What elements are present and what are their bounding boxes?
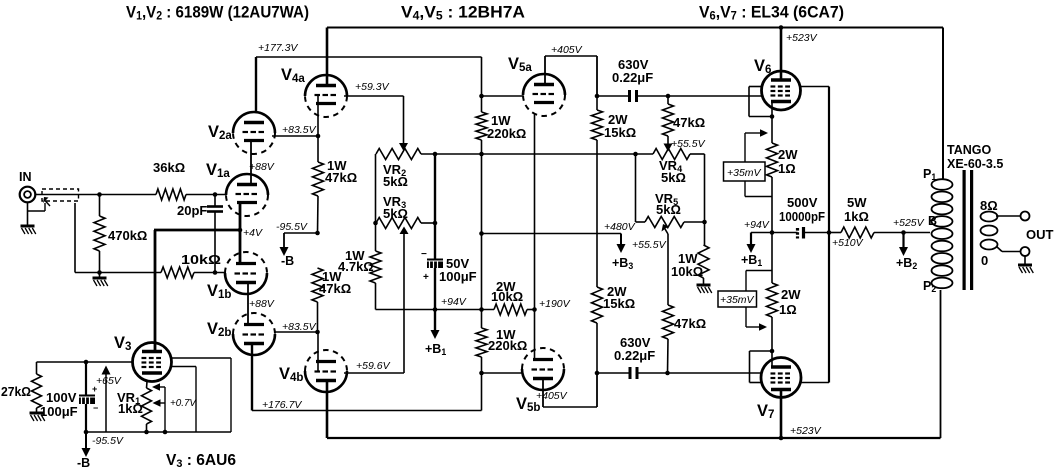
wire V3 grid rail [37, 361, 134, 363]
wire V4b cathode +59.6V to VR3 wiper [344, 360, 404, 373]
wire VR3 right to cap line [421, 222, 435, 224]
node 220k lower / +94V rail [479, 307, 484, 312]
wire V3 g3 to bottom rail right [170, 358, 231, 432]
V7 g3 bracket [750, 351, 773, 383]
meter box +35mV (upper) [724, 129, 773, 196]
svg-text:10kΩ: 10kΩ [491, 289, 523, 304]
capacitor 500V 10000pF [779, 195, 825, 239]
svg-text:47kΩ: 47kΩ [673, 115, 705, 130]
power +B2 arrow [896, 233, 917, 271]
node VR3 left [373, 221, 378, 226]
svg-text:5kΩ: 5kΩ [661, 170, 686, 185]
svg-text:+59.6V: +59.6V [356, 360, 391, 372]
pentode V6 [754, 57, 801, 110]
svg-text:+94V: +94V [441, 296, 467, 308]
node midline/+480V drop [633, 152, 638, 157]
label V3 : 6AU6 [166, 452, 236, 470]
wire +177.3V corner down to V5a grid [481, 57, 483, 96]
svg-text:36kΩ: 36kΩ [153, 160, 185, 175]
triode V1a [206, 161, 268, 216]
wire top rail down to P1 [942, 28, 944, 181]
triode V2b [207, 313, 275, 355]
svg-text:470kΩ: 470kΩ [108, 228, 147, 243]
svg-text:+88V: +88V [249, 298, 275, 310]
svg-text:-95.5V: -95.5V [92, 435, 124, 447]
shielded cable (dashed) [28, 189, 79, 211]
wire V4b plate to bottom rail [326, 381, 329, 438]
resistor 27kΩ [1, 362, 42, 412]
svg-text:+177.3V: +177.3V [258, 42, 298, 54]
svg-text:47kΩ: 47kΩ [319, 281, 351, 296]
VR1 wiper arrows [152, 383, 197, 434]
node V7 grid / 47k [665, 371, 670, 376]
wire VR2 left to VR3 left [375, 154, 377, 223]
wire V5a cathode down to V5b [534, 115, 536, 362]
wire V1a cathode tail (+4V node) [154, 203, 263, 263]
power +B1 arrow (left) [425, 310, 446, 357]
VR5 wiper arrow and 47k lower [632, 224, 669, 305]
svg-text:+35mV: +35mV [727, 167, 762, 179]
node midline/cap [433, 152, 438, 157]
svg-text:20pF: 20pF [177, 203, 207, 218]
wire V2b grid to node [275, 331, 318, 333]
node B +525V [893, 214, 937, 235]
triode V4a [281, 66, 347, 117]
wire V4a grid down to +83.5V node [317, 96, 319, 136]
wire V5b grid [482, 372, 523, 374]
wire V5a grid [482, 95, 524, 97]
secondary 0 lead [981, 246, 1030, 268]
triode V5b [516, 348, 564, 414]
node -95.5V [276, 221, 320, 235]
node +83.5V upper [316, 134, 321, 139]
svg-text:0: 0 [981, 253, 988, 268]
resistor 47kΩ (lower) [663, 305, 707, 373]
svg-text:+405V: +405V [551, 44, 583, 56]
power -B arrow (lower) [77, 432, 91, 470]
svg-text:IN: IN [19, 170, 32, 184]
ground (output) [1018, 256, 1033, 273]
capacitor 20pF [177, 195, 223, 273]
wire V3 plate to tail [154, 230, 157, 351]
wire to -B (upper) [284, 232, 318, 234]
wire lower grid return [75, 203, 161, 273]
pentode V3 [114, 334, 172, 382]
svg-text:100μF: 100μF [439, 269, 477, 284]
svg-text:OUT: OUT [1026, 227, 1054, 242]
svg-text:+190V: +190V [539, 298, 571, 310]
ground (27k) [30, 413, 45, 421]
node V7 anode on rail [779, 436, 784, 441]
svg-text:8Ω: 8Ω [980, 198, 998, 213]
wire V2b plate down to +176.7V line [251, 345, 253, 411]
svg-text:+94V: +94V [744, 219, 770, 231]
resistor 5W 1kΩ [832, 195, 874, 249]
svg-text:1kΩ: 1kΩ [118, 401, 143, 416]
potentiometer VR2 5kΩ [376, 149, 421, 190]
wire 220k chain vertical [481, 154, 483, 328]
svg-text:100μF: 100μF [40, 404, 78, 419]
resistor 1W 47kΩ (upper) [313, 136, 358, 233]
triode V1b [207, 252, 267, 301]
wire +B3 rail [482, 233, 622, 235]
resistor 10kΩ [161, 252, 225, 278]
wire V5b plate +405V [536, 373, 597, 407]
svg-text:+65V: +65V [96, 375, 122, 387]
svg-text:10kΩ: 10kΩ [671, 264, 703, 279]
svg-text:5kΩ: 5kΩ [656, 202, 681, 217]
wire V6 anode [780, 28, 783, 81]
wire V7 screen to right [800, 382, 829, 384]
svg-text:-B: -B [77, 456, 90, 470]
svg-text:47kΩ: 47kΩ [325, 170, 357, 185]
resistor 1W 47kΩ (lower) [312, 268, 351, 332]
svg-text:V6,V7 : EL34 (6CA7): V6,V7 : EL34 (6CA7) [699, 3, 844, 23]
svg-text:220kΩ: 220kΩ [487, 126, 526, 141]
wire V7 grid [668, 372, 762, 374]
svg-text:XE-60-3.5: XE-60-3.5 [947, 157, 1003, 171]
resistor 470kΩ [94, 195, 147, 273]
svg-text:+55.5V: +55.5V [632, 239, 667, 251]
svg-text:-95.5V: -95.5V [276, 221, 308, 233]
svg-text:+510V: +510V [832, 237, 864, 249]
svg-text:47kΩ: 47kΩ [674, 316, 706, 331]
node VR1 bottom [144, 430, 149, 435]
resistor 1W 220kΩ (lower) [476, 327, 527, 373]
wire V4a anode to top rail [326, 28, 329, 86]
wire P2 to bottom rail [940, 290, 942, 438]
transformer T1 TANGO XE-60-3.5 [923, 143, 1003, 294]
resistor 2W 10kΩ [491, 279, 535, 315]
svg-text:2W: 2W [778, 147, 798, 162]
wire V1b plate to V2b cathode [248, 283, 275, 325]
node V6 cathode resistor bottom rail [770, 230, 775, 235]
svg-text:10000pF: 10000pF [779, 209, 825, 224]
secondary 8 ohm lead [980, 198, 1030, 221]
power +B1 arrow (right) [741, 233, 762, 268]
wire screen bus vertical [828, 87, 830, 383]
svg-text:1Ω: 1Ω [779, 302, 797, 317]
V6 g3 bracket [749, 87, 772, 117]
wire V4b grid up to +83.5V node [317, 332, 319, 371]
svg-text:+35mV: +35mV [720, 294, 755, 306]
svg-text:+0.7V: +0.7V [170, 397, 197, 409]
power -B arrow (upper) [280, 233, 295, 268]
svg-text:+4V: +4V [243, 227, 263, 239]
wire V5a anode +405V [545, 44, 597, 96]
node V7 cathode [770, 349, 775, 354]
capacitor 100V 100uF electrolytic [40, 362, 98, 432]
capacitor 630V 0.22uF (upper) [597, 57, 668, 102]
potentiometer VR1 1kΩ [117, 382, 152, 433]
wire +176.7V corner up [481, 373, 483, 411]
resistor 2W 1Ω (lower) [767, 233, 802, 352]
svg-text:+88V: +88V [249, 161, 275, 173]
capacitor 630V 0.22uF (lower) [597, 335, 668, 379]
svg-text:2W: 2W [781, 287, 801, 302]
svg-text:1kΩ: 1kΩ [844, 209, 869, 224]
label OUT [1026, 227, 1054, 242]
node VR4/VR5 right [702, 220, 707, 225]
node V6 grid / 47k [666, 94, 671, 99]
arrow +65V [96, 366, 122, 433]
resistor 2W 15kΩ (upper) [592, 96, 637, 287]
wire V3 screen to bottom rail [171, 367, 196, 433]
svg-text:+55.5V: +55.5V [671, 138, 706, 150]
svg-text:−: − [421, 249, 427, 260]
ground (470k) [93, 273, 108, 287]
ground (input jack) [21, 203, 36, 235]
svg-text:+405V: +405V [536, 390, 568, 402]
svg-text:+523V: +523V [790, 425, 822, 437]
node upper coupling input [595, 94, 600, 99]
svg-text:27kΩ: 27kΩ [1, 384, 31, 399]
svg-text:5kΩ: 5kΩ [383, 174, 408, 189]
svg-text:1Ω: 1Ω [778, 161, 796, 176]
node screen bus / cap [827, 230, 832, 235]
svg-text:100V: 100V [46, 390, 77, 405]
node V6 anode on rail [779, 25, 818, 44]
potentiometer VR4 5kΩ [653, 149, 705, 186]
title V4,V5 tube type [401, 3, 525, 23]
capacitor 50V 100uF electrolytic [421, 154, 477, 310]
triode V4b [279, 350, 347, 392]
node V6 cathode [770, 114, 775, 119]
node cap bottom +94V rail [433, 307, 438, 312]
resistor 47kΩ (upper) [663, 96, 706, 152]
wire +94V screen rail [744, 219, 930, 233]
wire VR2 right / feedback midline [421, 153, 653, 155]
svg-text:+83.5V: +83.5V [282, 124, 317, 136]
svg-text:0.22μF: 0.22μF [614, 348, 655, 363]
svg-text:+176.7V: +176.7V [262, 399, 302, 411]
node V5b grid [479, 371, 484, 376]
svg-text:V1,V2 : 6189W (12AU7WA): V1,V2 : 6189W (12AU7WA) [126, 3, 309, 23]
resistor 2W 15kΩ (lower) [592, 284, 636, 373]
svg-text:+480V: +480V [604, 221, 636, 233]
svg-text:5W: 5W [847, 195, 867, 210]
resistor 1W 4.7kΩ [338, 223, 381, 310]
wire V7 anode [780, 390, 783, 438]
svg-text:+: + [423, 272, 429, 283]
title V1,V2 tube type [126, 3, 309, 23]
wire +177.3V rail [256, 42, 482, 113]
svg-text:220kΩ: 220kΩ [488, 338, 527, 353]
svg-text:V4,V5 : 12BH7A: V4,V5 : 12BH7A [401, 3, 525, 23]
svg-text:+525V: +525V [893, 217, 925, 229]
resistor 36kΩ [153, 160, 226, 200]
node +190V [532, 298, 570, 312]
VR2 wiper arrow [399, 96, 408, 151]
wire V7 cathode into tube [771, 351, 773, 366]
potentiometer VR5 5kΩ [645, 191, 705, 228]
wire input to grid [35, 194, 156, 196]
wire V4a cathode +59.3V to VR2 wiper [344, 81, 404, 96]
node -95.5V rail left [84, 430, 89, 435]
node input/470k junction [97, 192, 102, 197]
svg-text:15kΩ: 15kΩ [603, 296, 635, 311]
node +B3 rail start [479, 231, 484, 236]
wire +480V drop to VR5 [604, 154, 645, 233]
svg-text:4.7kΩ: 4.7kΩ [338, 259, 374, 274]
node V5a grid/220k [479, 94, 484, 99]
svg-text:500V: 500V [787, 195, 818, 210]
node 20pF / V1b grid [213, 270, 218, 275]
title V6,V7 tube type [699, 3, 844, 23]
svg-text:5kΩ: 5kΩ [383, 206, 408, 221]
svg-text:10kΩ: 10kΩ [181, 252, 221, 267]
pentode V7 [757, 358, 801, 422]
resistor 2W 1Ω (upper) [767, 143, 799, 233]
bottom rail +523V [327, 425, 941, 438]
resistor 1W 220kΩ (upper) [476, 96, 526, 154]
top rail +523V [327, 27, 943, 29]
node grid V1a / 20pF [213, 192, 218, 197]
triode V5a [508, 55, 565, 116]
svg-text:+523V: +523V [786, 32, 818, 44]
node lower coupling input [595, 371, 600, 376]
meter box +35mV (lower) [718, 271, 772, 331]
svg-text:−: − [93, 403, 98, 413]
svg-text:+59.3V: +59.3V [355, 81, 390, 93]
wire V2a grid to 47k chain [272, 124, 318, 136]
node grid rail / 100uF [84, 360, 89, 365]
resistor 1W 10kΩ [671, 222, 709, 284]
wire V2a cathode to V1a plate [249, 141, 275, 185]
svg-text:15kΩ: 15kΩ [604, 125, 636, 140]
VR3 wiper arrow [400, 227, 409, 374]
svg-text:TANGO: TANGO [947, 143, 991, 157]
svg-text:0.22μF: 0.22μF [612, 70, 653, 85]
wire VR4 right down [704, 154, 706, 222]
wire V6 grid [668, 95, 762, 97]
triode V2a [208, 112, 275, 154]
wire +94V rail left [376, 296, 495, 310]
node +83.5V lower [282, 321, 320, 334]
wire V6 cathode [771, 102, 773, 143]
svg-text:-B: -B [281, 254, 294, 268]
input jack J1 [19, 170, 35, 202]
node VR3/cap [433, 221, 438, 226]
wire V6 screen to right [800, 86, 829, 88]
wire V3 bottom rail [86, 432, 231, 447]
node 470k bottom [97, 270, 102, 275]
wire +176.7V line [252, 399, 482, 411]
potentiometer VR3 5kΩ [376, 194, 421, 229]
ground (10k) [697, 285, 712, 293]
node 220k/midline [479, 152, 484, 157]
power +B3 arrow [612, 234, 633, 271]
